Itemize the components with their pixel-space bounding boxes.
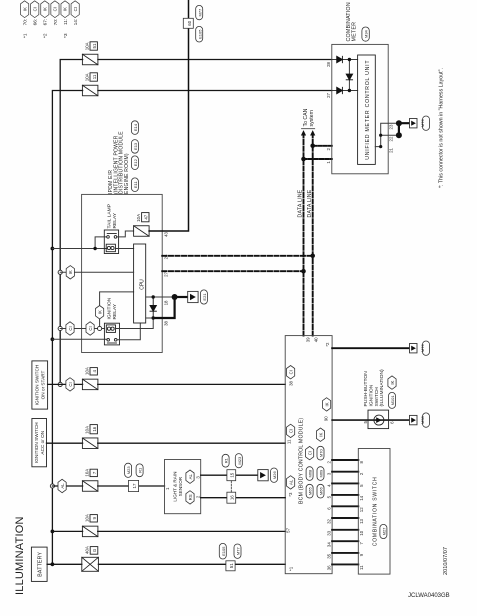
svg-text:M101: M101 [390,395,395,406]
svg-text:M34: M34 [363,29,368,38]
wire CPU to pin18 [146,296,175,298]
connector oval M69 [317,467,324,481]
svg-text:70:: 70: [23,19,29,26]
wire coil node to CPU [100,292,134,327]
wire thick meter illum jumper [399,123,410,135]
junction dots CAN [301,143,315,273]
harness code AL hexagon BCM [287,476,295,489]
svg-text:40: 40 [313,337,318,342]
wire pin43 tail lamp output [149,0,188,231]
illumination bulb symbol [374,415,384,425]
svg-text:CPU: CPU [140,279,146,290]
svg-text:11: 11 [92,74,97,79]
terminal arrow to M76 meter [410,119,418,128]
diode D-A [337,56,343,62]
wire battery bus L1 [52,91,82,565]
legend row 14 CI [71,1,79,26]
svg-text:CI: CI [288,429,293,433]
svg-text:11:: 11: [63,19,69,25]
svg-text:10A: 10A [136,214,141,222]
harness code CI hexagon on fuse4 wire [66,378,74,391]
svg-text:M77: M77 [236,547,241,556]
svg-text:IK: IK [390,380,395,384]
svg-text:ON or START: ON or START [40,371,45,400]
wire ign relay contact to CPU [117,323,140,340]
svg-text:LIGHT & RAIN: LIGHT & RAIN [173,472,178,502]
svg-text:*2: *2 [325,342,330,347]
svg-text:CI: CI [68,382,73,386]
harness code RS hexagon sensor [186,491,194,504]
junction big dots jumper [396,132,402,138]
svg-text:E13: E13 [133,142,138,150]
svg-text:35: 35 [326,553,331,558]
svg-text:UNIFIED METER CONTROL UNIT: UNIFIED METER CONTROL UNIT [365,60,371,160]
legend row *2 67 IK [41,1,49,38]
wire CAN drop IPDM pin27 [162,270,303,272]
svg-text:16: 16 [92,426,97,431]
svg-text:5: 5 [326,495,331,498]
svg-text:6: 6 [326,507,331,510]
wire relay coil to CPU [116,248,134,250]
label To CAN system [303,108,315,126]
svg-text:10A: 10A [85,469,90,477]
wire ign relay coil to diode node [116,318,153,329]
svg-text:IK: IK [43,7,48,11]
splice circles on bus L2 [58,382,62,386]
svg-text:38: 38 [289,380,294,385]
fuse 10A 11 [82,73,98,96]
svg-text:21: 21 [388,147,393,152]
harness code IK hexagon switch [388,376,396,389]
svg-text:6: 6 [390,421,395,424]
wire fuse51 drop to meter 28 [98,59,332,61]
svg-text:67:: 67: [43,19,49,26]
svg-text:27: 27 [164,271,169,276]
splice circle coil node [98,326,102,330]
svg-text:7: 7 [359,542,364,545]
svg-text:23: 23 [388,124,393,129]
terminal arrow M58 [410,415,418,424]
svg-text:CI: CI [88,326,93,330]
svg-text:M58: M58 [420,415,425,424]
svg-text:SWITCH: SWITCH [374,387,380,407]
wire CPU to pin38 [146,317,154,319]
push-button switch label [363,369,385,407]
fuse 10A 9 [82,514,98,537]
battery box [31,547,47,581]
tail lamp relay U-TL [104,230,118,254]
svg-text:ACC or ON: ACC or ON [40,431,45,455]
connector oval M70 [317,446,324,460]
svg-text:COMBINATION SWITCH: COMBINATION SWITCH [373,477,379,547]
svg-text:40A: 40A [84,546,89,554]
harness code IK hexagon BCM [316,428,324,441]
ignition switch ACC box [32,419,47,467]
svg-text:IGNITION: IGNITION [369,384,375,406]
svg-text:17: 17 [132,483,137,488]
IPDM E/R box [82,194,163,352]
svg-text:9: 9 [359,553,364,556]
harness code IK hexagon on CPU feed [66,266,74,279]
svg-text:IGNITION SWITCH: IGNITION SWITCH [34,365,39,406]
svg-text:M76: M76 [420,119,425,128]
svg-text:JCLWA0403GB: JCLWA0403GB [408,593,450,599]
fuse 10A 16 [82,425,98,449]
wire relay contact to fuse47 [117,231,134,237]
svg-text:M26: M26 [272,471,277,480]
svg-text:60: 60 [187,20,192,25]
svg-text:IK: IK [22,7,27,11]
svg-text:3: 3 [326,472,331,475]
svg-text:*: This connector is not shown: *: This connector is not shown in "Harne… [439,68,445,188]
wire sensor pin3 to M26 [201,474,258,476]
fuse 10A 51 [82,42,98,65]
junction dots diode link [348,89,351,92]
svg-text:M23: M23 [237,456,242,465]
wire CAN line A BCM39 [303,135,305,336]
BCM box [285,336,332,574]
svg-text:PUSH-BUTTON: PUSH-BUTTON [363,371,369,407]
CAN bracket [302,128,315,130]
svg-text:CI: CI [53,7,58,11]
svg-text:10: 10 [359,530,364,535]
diode D-C [346,74,352,80]
svg-text:14: 14 [359,495,364,500]
svg-text:E12: E12 [133,158,138,166]
svg-text:10A: 10A [85,42,90,50]
tail lamp relay label [107,204,119,228]
svg-text:1: 1 [165,487,170,490]
fuse 10A 47 [134,213,150,237]
ignition relay label [107,297,119,319]
svg-text:10A: 10A [85,514,90,522]
svg-text:10A: 10A [85,73,90,81]
svg-text:AL: AL [288,479,293,485]
legend row *1 70 IK [21,1,29,38]
connector oval M66 [317,484,324,498]
junction big dot E21 node [172,294,178,300]
svg-text:11: 11 [359,565,364,570]
svg-text:RELAY: RELAY [112,212,118,228]
wire sensor pin2 to BCM *3 [201,497,286,499]
svg-text:IGNITION SWITCH: IGNITION SWITCH [34,422,39,463]
unified meter control unit box [358,55,376,164]
svg-text:43: 43 [164,231,169,236]
svg-text:M68: M68 [308,469,313,478]
svg-text:1: 1 [326,161,331,164]
svg-text:ILLUMINATION: ILLUMINATION [14,516,26,595]
svg-text:M69: M69 [319,469,324,478]
svg-text:2: 2 [359,472,364,475]
svg-text:32: 32 [326,518,331,523]
svg-text:CI: CI [73,7,78,11]
ignition relay U-IG [104,323,119,345]
wire ACC drop to BCM 11 [47,442,286,444]
svg-text:E11: E11 [133,181,138,189]
svg-text:To CAN: To CAN [303,108,309,126]
light and rain sensor box R1 [165,460,201,514]
connector 17 M23-R1 [125,463,144,491]
ignition switch ON box [32,361,48,409]
svg-text:RELAY: RELAY [112,303,118,319]
svg-text:47: 47 [144,214,149,219]
svg-text:7: 7 [92,471,97,474]
svg-text:36: 36 [326,565,331,570]
terminal arrow M26 [258,470,268,481]
svg-text:M23: M23 [126,466,131,475]
connector oval E21 [200,290,207,304]
connector 60 E105-M77 [183,5,202,42]
svg-text:R1: R1 [224,457,229,463]
connector oval M27 [380,524,387,538]
svg-text:18: 18 [164,300,169,305]
svg-text:51: 51 [229,563,234,568]
wire BCM 90 to push-button switch [332,419,409,421]
connector 16 [227,492,236,503]
wire ON-START bus L2 [60,60,82,385]
svg-text:CI: CI [288,370,293,374]
connector 51 E105-M77 [219,543,241,570]
wire fuse7 drop to sensor [52,485,164,487]
svg-text:R1: R1 [138,467,143,473]
wire CAN drop IPDM pin26 [162,255,313,257]
svg-text:*3: *3 [63,33,69,38]
svg-text:AL: AL [60,483,65,489]
connector oval E13 [131,140,138,154]
svg-text:BCM (BODY CONTROL MODULE): BCM (BODY CONTROL MODULE) [299,418,305,504]
diode D-B [337,87,343,93]
svg-text:M65: M65 [308,487,313,496]
connector oval M101 [389,392,396,408]
sensor label [173,472,184,502]
svg-text:33: 33 [326,530,331,535]
svg-text:16: 16 [230,495,235,500]
wire thick to E21 [175,296,188,298]
svg-text:E105: E105 [221,546,226,556]
legend row 70 CI [51,1,59,26]
terminal arrow M76 BCM [410,344,418,353]
svg-text:RS: RS [188,494,193,500]
svg-text:70:: 70: [53,19,59,26]
svg-text:AL: AL [188,473,193,479]
connector oval M58 [420,413,429,427]
svg-text:15: 15 [230,472,235,477]
svg-text:5: 5 [363,420,368,423]
svg-text:4: 4 [92,370,97,373]
svg-text:39: 39 [306,337,311,342]
svg-text:E105: E105 [197,29,202,39]
combination switch box M27 [358,449,390,575]
connector oval M68 [306,467,313,481]
svg-text:M77: M77 [197,8,202,17]
wire CAN line B BCM40 [312,135,314,336]
svg-text:(ILLUMINATION): (ILLUMINATION) [379,369,385,407]
junction dots on bus L1 [51,247,55,567]
svg-text:27: 27 [326,92,331,97]
svg-text:90: 90 [324,416,329,421]
svg-text:57: 57 [286,527,291,532]
svg-text:system: system [309,110,315,126]
wire thick ground pin38 [153,297,174,318]
BCM pins 36-2 labels [326,460,331,570]
connector oval M76 BCM [420,341,429,355]
wire BCM *2 to M76 [332,347,409,349]
svg-text:IGNITION: IGNITION [107,297,113,319]
svg-text:IK: IK [68,270,73,274]
harness code CI hexagon 1 [66,322,74,335]
connector 15 R1-M23 [222,454,242,481]
harness code AL hexagon sensor [186,470,194,483]
wire fuse9 drop to BCM 57 [52,530,285,532]
svg-text:34: 34 [326,542,331,547]
svg-text:66:: 66: [33,19,39,26]
svg-text:M27: M27 [382,527,387,536]
svg-text:*1: *1 [23,33,29,38]
svg-text:3: 3 [195,476,200,479]
connector oval E11 [131,178,138,192]
harness code CI hexagon 2 [86,322,94,335]
wire CAN drop meter pin1 [304,158,332,160]
svg-text:14:: 14: [73,19,79,26]
svg-text:ENGINE ROOM): ENGINE ROOM) [124,153,130,194]
svg-text:51: 51 [92,43,97,48]
svg-text:DATA LINE: DATA LINE [298,189,304,217]
svg-text:10A: 10A [85,367,90,375]
svg-text:11: 11 [286,439,291,444]
svg-text:2: 2 [326,460,331,463]
svg-text:METER: METER [352,22,358,42]
wire CPU feed from L2 [60,271,133,273]
diode D1 [150,297,156,318]
svg-text:CI: CI [68,326,73,330]
svg-text:10A: 10A [85,426,90,434]
svg-text:E21: E21 [202,293,207,301]
connector oval E14 [131,121,138,135]
svg-text:G: G [92,548,97,552]
svg-text:M76: M76 [420,344,425,353]
svg-text:SENSOR: SENSOR [178,476,183,496]
wire tail lamp relay feed [52,248,106,250]
svg-text:CI: CI [307,451,312,455]
connector oval M65 [306,484,313,498]
wire coil feed CI-CI [60,328,104,330]
push-button ignition switch box [368,410,389,429]
wire meter diode A branch [332,59,358,61]
wire battery drop to BCM *1 [47,563,285,565]
junction dots diode [152,316,155,319]
svg-text:M66: M66 [319,487,324,496]
legend row *3 11 IK [61,1,69,38]
combination switch pins 11-8 labels [359,460,364,570]
connector oval M76 meter [420,116,429,130]
svg-text:DATA LINE: DATA LINE [307,189,313,217]
IPDM E/R label [108,131,130,194]
wire BCM to comb switch x10 [332,460,358,564]
combination meter box M34 [332,44,388,173]
fuse 10A 4 [82,367,98,390]
harness code CI hexagon pin11 [287,424,295,437]
svg-text:*2: *2 [43,33,49,38]
svg-text:M70: M70 [319,449,324,458]
wire ON-START drop to BCM 38 [48,383,286,385]
svg-text:12: 12 [359,507,364,512]
terminal arrow E21 [188,291,198,302]
svg-text:CI: CI [32,7,37,11]
svg-text:5: 5 [359,484,364,487]
wire diode link [348,60,350,91]
harness code IK hexagon pin90 [323,398,331,411]
svg-text:2: 2 [326,147,331,150]
svg-text:E14: E14 [133,123,138,131]
junction dot relay feed [93,247,96,250]
svg-text:IK: IK [97,310,102,314]
fuse 10A 7 [82,469,98,492]
legend row 66 CI [31,1,39,26]
svg-text:9: 9 [92,517,97,520]
svg-text:IK: IK [324,402,329,406]
combination meter label [346,2,358,41]
wire meter diode B branch [332,90,358,92]
wire ignition relay contact feed [52,338,107,340]
svg-text:*1: *1 [288,566,293,571]
wire unified out pins 21-23 [375,123,399,146]
connector oval M34 [362,27,369,41]
harness code CI hexagon pin38 [287,366,295,379]
CAN arrowheads [301,130,315,135]
svg-text:IK: IK [318,433,323,437]
connector oval M26 [271,468,278,482]
svg-text:38: 38 [164,320,169,325]
wire CAN drop meter pin2 [313,145,332,147]
junction dots pins link [379,145,382,148]
svg-text:8: 8 [359,460,364,463]
svg-text:*3: *3 [288,492,293,497]
svg-text:13: 13 [359,518,364,523]
wire fuse11 drop to meter 27 [98,90,332,92]
svg-text:28: 28 [326,61,331,66]
splice circle fuse7 tap [50,484,54,488]
wire dashed connector tie [230,481,232,493]
harness code CI hexagon BCM [306,446,314,459]
connector oval E12 [131,156,138,170]
svg-text:22: 22 [388,136,393,141]
wire feed split to relay contact [95,237,107,249]
harness code AL hexagon [58,479,66,492]
CPU box [134,244,146,323]
svg-text:4: 4 [326,484,331,487]
svg-text:2: 2 [195,495,200,498]
svg-text:BATTERY: BATTERY [38,552,44,577]
svg-text:2010/07/07: 2010/07/07 [443,547,449,575]
svg-text:TAIL LAMP: TAIL LAMP [107,204,113,228]
fusible link 40A G [82,546,99,571]
svg-text:IK: IK [63,7,68,11]
harness code IK hexagon on CPU coil wire [96,306,104,319]
